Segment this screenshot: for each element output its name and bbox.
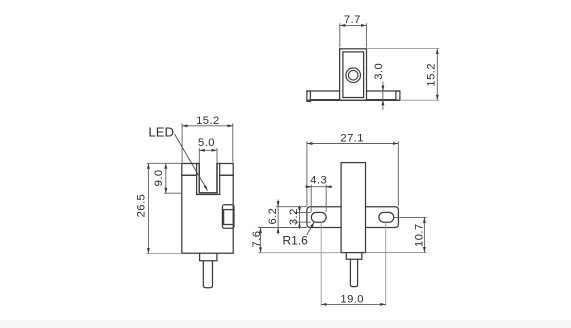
svg-text:5.0: 5.0 [198, 137, 215, 149]
svg-text:6.2: 6.2 [267, 208, 279, 225]
svg-text:27.1: 27.1 [340, 132, 364, 144]
svg-text:3.2: 3.2 [288, 208, 300, 225]
svg-text:7.6: 7.6 [251, 231, 263, 248]
svg-text:LED: LED [148, 124, 174, 139]
svg-text:15.2: 15.2 [426, 63, 438, 87]
svg-text:15.2: 15.2 [196, 115, 220, 127]
svg-text:4.3: 4.3 [310, 174, 327, 186]
svg-text:R1.6: R1.6 [283, 233, 309, 247]
svg-text:3.0: 3.0 [373, 63, 385, 80]
svg-text:26.5: 26.5 [135, 194, 147, 218]
svg-text:19.0: 19.0 [340, 293, 364, 305]
svg-text:7.7: 7.7 [344, 14, 361, 26]
svg-text:9.0: 9.0 [153, 169, 165, 186]
svg-text:10.7: 10.7 [414, 223, 426, 247]
